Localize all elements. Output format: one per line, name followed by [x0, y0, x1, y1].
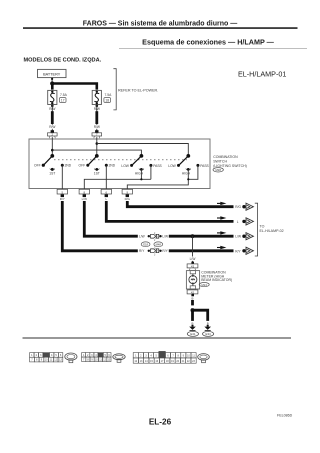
fuse F1 7.5A No.17: [48, 90, 68, 104]
combination meter (high beam indicator) U1: [186, 271, 199, 289]
svg-text:R/Y: R/Y: [235, 249, 241, 253]
wire: fuse F2 to switch connector: [96, 105, 99, 108]
wire: fuse F1 to switch connector: [51, 105, 54, 108]
bracket: refer to EL-POWER: [113, 69, 116, 110]
wire label R/W (above connector 2): [93, 125, 100, 129]
connector pin 42 (meter bottom): [187, 290, 198, 297]
ground G2: [203, 325, 214, 337]
wire: L/W branch down to meter: [192, 236, 194, 264]
svg-text:17: 17: [61, 98, 65, 102]
wire: feed into switch SW2: [96, 137, 98, 156]
wire: line B to dimmer SW4: [97, 144, 189, 156]
svg-text:OFF: OFF: [79, 164, 86, 168]
connector face grid A (lighting switch): [30, 353, 63, 362]
svg-text:PASS: PASS: [153, 164, 162, 168]
svg-text:1ST: 1ST: [49, 172, 55, 176]
inline connector L/W (E18-M48): [139, 233, 168, 242]
svg-text:L/W: L/W: [235, 235, 241, 239]
bracket: TO EL-H/LAMP-02: [255, 203, 258, 256]
svg-text:R/W: R/W: [49, 125, 55, 129]
node: ground branch junction: [191, 308, 195, 312]
node: SW1 feed junction: [51, 149, 54, 152]
svg-text:REFER TO EL-POWER.: REFER TO EL-POWER.: [118, 89, 158, 93]
label: COMBINATION METER (HIGH BEAM INDICATOR): [199, 270, 232, 287]
connector pin 7 (switch top, right): [92, 130, 102, 138]
svg-text:E41: E41: [190, 332, 196, 336]
connector pin 9 (switch bottom 4): [122, 189, 132, 197]
wire: R/Y run (right of inline connector): [169, 249, 234, 252]
svg-text:COMBINATION: COMBINATION: [213, 155, 238, 159]
svg-text:E18: E18: [143, 243, 148, 247]
svg-text:L: L: [237, 220, 239, 224]
svg-text:M48: M48: [156, 243, 162, 247]
switch SW4 dimmer (LOW/HIGH/PASS): [168, 154, 209, 176]
svg-text:E34: E34: [206, 332, 212, 336]
wire: L/W run (right of inline connector): [169, 235, 234, 238]
svg-text:FEL086D: FEL086D: [277, 414, 293, 418]
header rule: [23, 27, 298, 29]
section divider: [23, 337, 292, 339]
svg-text:L/W: L/W: [190, 257, 196, 261]
svg-text:Esquema de conexiones — H/LAMP: Esquema de conexiones — H/LAMP —: [142, 37, 274, 46]
svg-text:HIGH: HIGH: [135, 172, 144, 176]
svg-text:LOW: LOW: [121, 164, 129, 168]
svg-text:1ST: 1ST: [94, 172, 100, 176]
svg-text:R/W: R/W: [94, 125, 100, 129]
svg-text:R/Y: R/Y: [139, 249, 145, 253]
svg-text:EL-H/LAMP-01: EL-H/LAMP-01: [238, 70, 286, 79]
svg-text:EL-H/LAMP-02: EL-H/LAMP-02: [260, 229, 284, 233]
svg-text:43: 43: [191, 264, 195, 268]
wire: R/Y run (left of inline connector): [62, 201, 138, 251]
combination switch box: [29, 139, 210, 189]
svg-text:TO: TO: [260, 224, 265, 228]
page arrows to EL-H/LAMP-02: [217, 202, 253, 211]
connector face grid B (lighting switch 2): [82, 353, 111, 362]
connector pin 6 (switch bottom 3): [101, 189, 111, 197]
svg-text:OFF: OFF: [34, 164, 41, 168]
svg-text:M24: M24: [201, 283, 207, 287]
wire: L/W run (left of inline connector): [84, 201, 138, 236]
node: L/W junction to meter: [191, 234, 195, 238]
wire: R/G run to page arrow: [127, 201, 233, 207]
svg-text:L/W: L/W: [82, 197, 88, 201]
svg-text:R/Y: R/Y: [60, 197, 65, 201]
svg-text:L/W: L/W: [139, 235, 145, 239]
svg-text:R/G: R/G: [235, 205, 241, 209]
wire label L/W (meter feed): [189, 257, 197, 261]
ground G1: [187, 325, 198, 337]
switch SW2 lighting (OFF/1ST/2ND): [79, 154, 116, 176]
wire: SW2 2ND to connector 6: [105, 165, 107, 189]
svg-text:PASS: PASS: [200, 164, 209, 168]
mechanical link (dashed): [54, 159, 187, 161]
svg-text:42: 42: [191, 290, 195, 294]
wire: SW1 2ND to connector 5: [61, 165, 63, 189]
wire: L run to page arrow: [106, 201, 233, 221]
wire: SW4 high+pass output to connector 9: [127, 165, 198, 189]
connector pin 43 (meter top): [187, 262, 198, 271]
inline connector R/Y: [139, 248, 169, 257]
wire: battery to bus: [51, 78, 53, 83]
svg-text:SWITCH: SWITCH: [213, 160, 227, 164]
svg-text:R/G: R/G: [125, 197, 131, 201]
svg-text:EL-26: EL-26: [149, 418, 172, 427]
svg-text:HIGH: HIGH: [182, 172, 191, 176]
svg-text:2ND: 2ND: [65, 164, 72, 168]
svg-text:L/W: L/W: [162, 235, 168, 239]
battery B1: [38, 69, 67, 77]
svg-text:7.5A: 7.5A: [60, 93, 68, 97]
wire: thick bus to fuses: [52, 84, 97, 90]
connector pin 8 (switch bottom 2): [79, 189, 89, 197]
fuse F2 7.5A No.18: [92, 90, 112, 104]
label: COMBINATION SWITCH (LIGHTING SWITCH): [213, 155, 247, 172]
connector ref oval A: [65, 353, 77, 363]
svg-text:B: B: [192, 321, 194, 325]
switch SW3 dimmer (LOW/HIGH/PASS): [121, 154, 162, 176]
svg-text:LOW: LOW: [168, 164, 176, 168]
svg-text:R/Y: R/Y: [162, 249, 168, 253]
svg-text:M28: M28: [215, 168, 221, 172]
svg-text:MODELOS DE COND. IZQDA.: MODELOS DE COND. IZQDA.: [24, 58, 102, 64]
connector face grid C (combination meter): [133, 351, 196, 363]
node: SW2 feed junction: [96, 142, 99, 145]
node: battery bus junction: [50, 81, 54, 85]
connector pin 5 (switch bottom 1): [57, 189, 67, 197]
wire label R/W (above connector): [49, 125, 56, 129]
wire: branch to second ground: [193, 310, 208, 321]
svg-text:18: 18: [105, 98, 109, 102]
connector ref oval B: [113, 354, 125, 363]
svg-text:7.5A: 7.5A: [105, 93, 113, 97]
connector ref ovals E18 / M48: [141, 242, 163, 247]
wire: SW3 high+pass output to connector 8: [84, 165, 151, 189]
svg-text:BATTERY: BATTERY: [43, 72, 61, 76]
wire: line A to dimmer SW3: [52, 150, 141, 156]
switch SW1 lighting (OFF/1ST/2ND): [34, 154, 72, 176]
wire: feed into switch SW1: [51, 137, 53, 156]
svg-text:FAROS — Sin sistema de alumbra: FAROS — Sin sistema de alumbrado diurno …: [83, 20, 237, 27]
connector pin 2 (switch top, left): [48, 130, 58, 138]
connector ref oval C: [198, 354, 210, 363]
svg-text:B: B: [192, 296, 194, 300]
svg-text:2ND: 2ND: [109, 164, 116, 168]
svg-text:B: B: [207, 321, 209, 325]
svg-text:BEAM INDICATOR): BEAM INDICATOR): [201, 278, 232, 282]
